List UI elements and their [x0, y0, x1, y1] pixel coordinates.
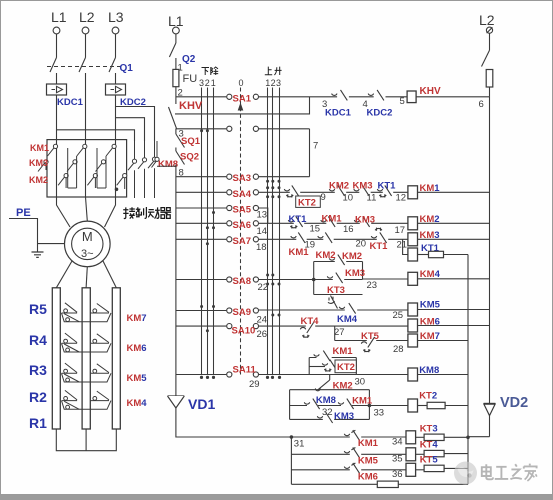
position mark SA5 [212, 211, 215, 214]
svg-text:L2: L2 [79, 9, 95, 25]
wire box mid branch [314, 279, 363, 281]
diode VD1 [168, 396, 185, 408]
wire KM1 coil to rail [418, 191, 490, 193]
contact SA5 left terminal [227, 205, 232, 210]
svg-text:KM1: KM1 [30, 143, 49, 153]
svg-text:KT1: KT1 [289, 214, 308, 225]
wire KT4 coil to resistor [416, 453, 424, 455]
svg-text:Q1: Q1 [120, 63, 134, 74]
wire KT1 coil to resistor [418, 254, 429, 256]
svg-text:10: 10 [343, 193, 354, 204]
position line end dot [266, 376, 269, 379]
contact SA3 left terminal [227, 174, 232, 179]
contact SA10 left terminal [227, 324, 232, 329]
wire SA11 left [176, 374, 226, 376]
svg-text:KM5: KM5 [420, 299, 441, 310]
svg-text:19: 19 [305, 239, 316, 250]
relay KDC1 contact [332, 90, 349, 101]
contact SA6 right terminal [253, 221, 258, 226]
controller position line x=267.5 [267, 88, 269, 375]
wire KM3 coil to rail [418, 238, 490, 240]
time relay KT3 coil [406, 431, 416, 444]
contact SA2 left terminal [227, 126, 232, 131]
contactor KM1 coil [408, 186, 418, 199]
svg-text:L3: L3 [108, 9, 124, 25]
svg-text:KT1: KT1 [378, 180, 397, 191]
time relay KT5 coil [406, 463, 416, 476]
terminal L1 [53, 27, 60, 34]
wire box mid right [352, 405, 369, 407]
contact SA4 right terminal [253, 190, 258, 195]
svg-text:KT2: KT2 [337, 362, 355, 373]
wire to KT2 coil [369, 405, 407, 407]
svg-text:SQ2: SQ2 [180, 152, 199, 163]
resistor bottom [377, 481, 398, 487]
svg-text:KM4: KM4 [127, 398, 148, 409]
fuse FU [173, 69, 179, 86]
contactor KM1 aux contact rung10 [338, 399, 355, 410]
switch Q2 blade [169, 43, 176, 57]
wire KM7 coil to inner rail [418, 340, 469, 342]
contact SA7 left terminal [227, 237, 232, 242]
contactor KM4 coil [408, 272, 418, 285]
svg-text:3~: 3~ [81, 248, 94, 260]
wire rung KM8 [259, 374, 408, 376]
time relay KT4 coil [406, 448, 416, 461]
svg-text:SQ1: SQ1 [181, 136, 201, 147]
svg-text:2: 2 [271, 78, 276, 88]
svg-text:KM5: KM5 [127, 373, 148, 384]
contactor KM1 aux contact rung11 [344, 430, 361, 441]
svg-text:SA1: SA1 [233, 93, 252, 104]
wire node2 aux to rung [175, 97, 310, 114]
contactor KM1 main contacts row [48, 144, 117, 156]
watermark text dian gong zhi jia [482, 464, 537, 481]
svg-text:KT2: KT2 [419, 390, 437, 401]
contact SA8 left terminal [227, 277, 232, 282]
svg-text:KM3: KM3 [29, 158, 48, 168]
relay KHV coil [407, 91, 416, 103]
wire phase 1 upper [56, 34, 58, 58]
position line end dot [271, 376, 274, 379]
svg-text:R3: R3 [29, 362, 47, 378]
contact SA9 left terminal [227, 308, 232, 313]
wire rung KM5 [259, 309, 408, 311]
contactor KM2 aux contact rung4 [329, 255, 346, 266]
svg-text:SA3: SA3 [233, 173, 251, 184]
svg-text:SA9: SA9 [233, 307, 251, 318]
contactor KM2 coil [408, 217, 418, 230]
svg-text:SA7: SA7 [233, 236, 251, 247]
svg-text:R5: R5 [29, 301, 47, 317]
svg-text:0: 0 [239, 78, 244, 88]
svg-text:KDC1: KDC1 [325, 108, 352, 119]
svg-text:3: 3 [276, 78, 281, 88]
wire Q2 to FU [175, 58, 177, 69]
wire KT5 coil to resistor [416, 469, 424, 471]
motor M outer circle [65, 221, 111, 267]
parallel box KM1/KT2 [309, 358, 356, 375]
resistor column bar 3 [112, 288, 120, 429]
svg-text:23: 23 [367, 280, 378, 291]
svg-text:KM1: KM1 [358, 438, 379, 449]
wire rung KM2 [259, 222, 408, 224]
svg-text:KM4: KM4 [420, 269, 441, 280]
contactor KM2 aux contact rung3 [318, 232, 334, 243]
position mark SA8 dn [271, 283, 274, 286]
wire motor to R bank right [103, 261, 116, 288]
contactor KM5 coil [408, 303, 418, 316]
time relay KT1 contact rung3 [371, 228, 388, 243]
position mark SA4 dn [278, 195, 281, 198]
svg-text:13: 13 [257, 209, 268, 220]
contact SA6 left terminal [227, 221, 232, 226]
wire rung KM7 [335, 340, 408, 342]
wire phase1 through box [56, 140, 58, 197]
limit switch SQ1 blade [176, 134, 185, 148]
svg-text:KT4: KT4 [420, 439, 439, 450]
contactor KM1 aux contact rung8 [314, 351, 332, 362]
wire brake feed 3 [57, 130, 135, 141]
wire fuse to node 6 [489, 87, 491, 97]
controller position line x=213.5 [213, 88, 215, 375]
wire box to motor right [105, 197, 116, 227]
position mark SA4 up [266, 186, 269, 189]
position mark SA8 dn [266, 283, 269, 286]
contactor KM4 shorting contacts row [62, 390, 112, 409]
svg-text:KM1: KM1 [322, 213, 343, 224]
contact SA7 right terminal [253, 237, 258, 242]
position mark SA6b [212, 226, 215, 229]
reverser contactor box outline [47, 140, 127, 197]
wire rung KM1 [259, 191, 408, 193]
wire inner rail [467, 255, 469, 485]
wire node2 stub [175, 102, 177, 104]
junction [200, 129, 203, 132]
wire left bus to KT3 rung [176, 408, 292, 437]
wire box mid [318, 405, 341, 407]
fuse L2 [486, 70, 493, 88]
watermark logo circle [454, 462, 477, 485]
junction in reverser box [115, 188, 119, 192]
KDC1 I> symbol [52, 86, 63, 92]
svg-text:34: 34 [392, 436, 403, 447]
contact SA1 left terminal [227, 94, 232, 99]
wire phase 2 upper [85, 34, 87, 58]
svg-text:SA6: SA6 [233, 220, 251, 231]
wire bottom left vertical [290, 437, 292, 484]
resistor column bar 1 [52, 288, 60, 429]
wire SA5 left [176, 207, 226, 209]
contactor KM6 coil [408, 319, 418, 332]
contactor KM2 aux contact [329, 185, 346, 196]
contact SA1 right terminal [253, 94, 258, 99]
wire SA9 left [176, 310, 226, 312]
position mark SA3 [271, 180, 274, 183]
svg-text:7: 7 [313, 141, 318, 152]
brake contactor KM8 contacts (3 poles) [128, 141, 157, 198]
contactor KM5 aux contact rung12 [344, 447, 361, 458]
svg-text:KT5: KT5 [420, 455, 439, 466]
overcurrent relay KDC1 box [47, 84, 67, 95]
wire KM5 coil to rail [418, 309, 490, 311]
svg-text:KT1: KT1 [370, 241, 389, 252]
relay KHV no-volt contact blade [169, 107, 177, 129]
controller zero-position arrow [238, 103, 244, 111]
terminal L2 [82, 27, 89, 34]
time relay KT1 contact rung2 [288, 216, 304, 228]
controller position line x=207.5 [207, 88, 209, 375]
wire KT1 resistor to inner rail [444, 254, 469, 256]
svg-text:KM2: KM2 [342, 251, 362, 262]
position mark SA8 dn [278, 283, 281, 286]
text down label (xia jiang) [202, 67, 219, 75]
time relay KT3 contact blade [328, 296, 338, 309]
label KT2 boxed rung8 [335, 360, 356, 373]
overcurrent relay KDC2 box [106, 84, 126, 95]
position mark SA9d [278, 314, 281, 317]
ground symbol [32, 252, 44, 257]
contactor KM8 aux contact rung10 [304, 399, 321, 410]
resistor KT2 economy [427, 402, 445, 408]
contact SA2 right terminal [253, 126, 258, 131]
svg-text:KHV: KHV [179, 100, 203, 112]
svg-text:KM3: KM3 [355, 214, 375, 225]
svg-text:26: 26 [257, 329, 268, 340]
contact SA4 left terminal [227, 190, 232, 195]
svg-text:18: 18 [256, 242, 267, 253]
wire rung KM6 [259, 325, 408, 327]
svg-text:SA10: SA10 [232, 326, 256, 337]
svg-text:KDC2: KDC2 [367, 108, 393, 119]
wire rung KM3 [259, 238, 408, 240]
svg-text:KHV: KHV [420, 86, 441, 97]
contact SA9 right terminal [253, 308, 258, 313]
wire KM8 coil to inner rail [418, 374, 469, 376]
wire SA4 left [176, 191, 226, 193]
contactor KM5 shorting contacts row [62, 363, 112, 382]
time relay KT1 coil [408, 248, 418, 261]
time relay KT1 contact rung1 [377, 185, 393, 197]
svg-text:SA11: SA11 [233, 365, 257, 376]
svg-text:17: 17 [395, 225, 406, 236]
wire phase 2 to reverser box [85, 73, 87, 140]
svg-text:KM3: KM3 [334, 411, 354, 422]
svg-text:6: 6 [479, 99, 484, 110]
switch Q1 pole 1 blade [50, 58, 57, 73]
wire FU to node2 [175, 87, 177, 102]
wire phase3 through box [115, 140, 117, 197]
wire SA2 left [176, 128, 226, 130]
wire box to KM4 coil [363, 278, 408, 280]
wire node3 [175, 129, 177, 135]
svg-text:KDC1: KDC1 [57, 97, 84, 108]
resistor KT4 economy [424, 450, 444, 456]
KDC2 I> symbol [111, 86, 122, 92]
wire rung KT5 [291, 469, 406, 471]
contactor KM6 aux contact rung13 [344, 463, 361, 474]
wire KDC2 to reverser box [115, 95, 117, 140]
wire phase2 through box [85, 140, 87, 197]
controller centre dashed line [240, 88, 242, 375]
wire SA10 left [176, 325, 226, 327]
limit switch SQ2 blade [176, 151, 185, 165]
position mark SA6 [206, 226, 209, 229]
svg-text:KM6: KM6 [358, 471, 378, 482]
wire SA1 left [176, 96, 226, 98]
wire SA3 left [176, 176, 226, 178]
wire phase 1 to KDC1 [56, 73, 58, 84]
wire box to motor left [57, 197, 71, 227]
wire KM2 coil to rail [418, 222, 490, 224]
svg-text:3: 3 [199, 78, 204, 88]
wire motor to R bank left [56, 261, 72, 288]
text up label (shang sheng) [265, 67, 282, 75]
position mark SA9c [271, 314, 274, 317]
contactor KM8 bypass contact [152, 141, 176, 168]
junction box right [368, 404, 372, 408]
position mark SA4 dn [266, 195, 269, 198]
svg-text:SA4: SA4 [233, 189, 252, 200]
svg-text:36: 36 [392, 469, 403, 480]
wire outer rail upper [489, 97, 491, 404]
wire rail jog [468, 436, 490, 438]
wire brake feed 1 [116, 107, 155, 142]
wire phase 3 to KDC2 [115, 73, 117, 84]
wire PE to ground [9, 219, 65, 253]
position mark SA4 up [278, 186, 281, 189]
svg-text:31: 31 [294, 439, 305, 450]
contactor KM3 coil [408, 233, 418, 246]
resistor KT1 economy [429, 251, 444, 257]
svg-text:KM5: KM5 [358, 455, 379, 466]
contactor KM7 coil [408, 334, 418, 347]
controller position line x=201.5 [201, 88, 203, 375]
svg-text:KM7: KM7 [127, 313, 147, 324]
contactor KM1 aux contact rung3 [291, 232, 307, 243]
diode VD2 [484, 403, 496, 415]
wire L2 down [489, 33, 491, 50]
svg-text:FU: FU [183, 73, 198, 85]
svg-text:KT3: KT3 [327, 285, 345, 296]
svg-text:SA8: SA8 [233, 276, 251, 287]
svg-text:L1: L1 [51, 9, 67, 25]
svg-text:12: 12 [396, 193, 407, 204]
wire rung KT3 [291, 436, 406, 438]
wire SA7 left [176, 238, 226, 240]
contactor KM3 aux contact [354, 185, 371, 196]
svg-text:KT2: KT2 [298, 197, 316, 208]
svg-text:4: 4 [363, 99, 368, 110]
position mark SA9b [212, 305, 215, 308]
wire left bus down [175, 165, 177, 397]
position mark SA3 [266, 180, 269, 183]
junction inner rail [466, 436, 470, 440]
wire SA5 right to node 13 [259, 208, 268, 223]
position mark SA9 [200, 305, 203, 308]
relay KDC2 contact [368, 90, 385, 101]
position mark SA7 [206, 242, 209, 245]
time relay KT2 contact rung8 [322, 360, 338, 372]
svg-text:1: 1 [265, 78, 270, 88]
wire brake feed 2 [116, 118, 145, 141]
switch Q1 linkage dashed [47, 66, 121, 68]
svg-text:KM6: KM6 [127, 343, 147, 354]
junction box left [312, 278, 316, 282]
svg-text:9: 9 [321, 192, 326, 203]
wire bottom line left [291, 483, 377, 485]
wire KT3 resistor to rail [444, 436, 468, 438]
position mark SA8 up [266, 274, 269, 277]
switch L2 blade [482, 50, 490, 66]
resistor KT3 economy [424, 434, 444, 440]
svg-text:L2: L2 [479, 12, 495, 28]
svg-text:32: 32 [322, 407, 333, 418]
svg-text:KM3: KM3 [353, 180, 373, 191]
position mark SA10 [206, 329, 209, 332]
motor M inner circle [72, 228, 103, 259]
wire phase 3 upper [115, 34, 117, 58]
contact SA5 right terminal [253, 205, 258, 210]
svg-text:28: 28 [393, 344, 404, 355]
svg-text:KM3: KM3 [345, 268, 365, 279]
wire SA2 right [259, 128, 310, 130]
wire rung KT4 [291, 453, 406, 455]
controller position line x=272.5 [272, 88, 274, 375]
wire SA8 to box [259, 279, 314, 281]
wire net 7 vertical [309, 129, 311, 177]
svg-text:1: 1 [211, 78, 216, 88]
svg-text:21: 21 [397, 239, 408, 250]
position mark SA4 dn [271, 195, 274, 198]
switch Q1 pole 2 blade [79, 58, 86, 73]
svg-text:KT3: KT3 [420, 423, 438, 434]
wire KM4 coil to rail [418, 278, 490, 280]
wire L1 to Q2 [175, 34, 177, 43]
parallel box KM8/KM1/KM3 [290, 390, 370, 420]
contactor KM4 aux contact rung5 [339, 303, 357, 314]
wire SA8 left [176, 279, 226, 281]
wire SA1 to KHV rung [259, 96, 490, 98]
contactor KM3 aux contact rung10 [317, 413, 334, 424]
svg-text:15: 15 [310, 224, 321, 235]
resistor column bar 2 [82, 288, 90, 429]
svg-text:30: 30 [355, 376, 366, 387]
svg-text:11: 11 [367, 193, 377, 204]
time relay KT2 contact [284, 185, 300, 197]
svg-text:VD1: VD1 [188, 396, 215, 412]
svg-text:27: 27 [334, 327, 345, 338]
contact SA3 right terminal [253, 174, 258, 179]
svg-text:VD2: VD2 [500, 395, 528, 411]
position mark SA3 [278, 180, 281, 183]
svg-text:14: 14 [257, 226, 268, 237]
wire SA6 left [176, 222, 226, 224]
svg-text:KM2: KM2 [29, 175, 48, 185]
parallel box KM2/KM3 [314, 262, 363, 295]
svg-text:KM8: KM8 [316, 395, 336, 406]
contactor KM3 aux contact rung2 [354, 216, 371, 227]
wire SQ1-SQ2 [175, 148, 177, 152]
position line end dot [212, 376, 215, 379]
position line end dot [278, 376, 281, 379]
svg-text:KM2: KM2 [329, 180, 349, 191]
svg-text:2: 2 [205, 78, 210, 88]
svg-text:KM8: KM8 [158, 159, 178, 170]
wire KT2 resistor to inner rail [445, 405, 468, 407]
label KT2 boxed [296, 196, 321, 207]
contact SA8 right terminal [253, 277, 258, 282]
